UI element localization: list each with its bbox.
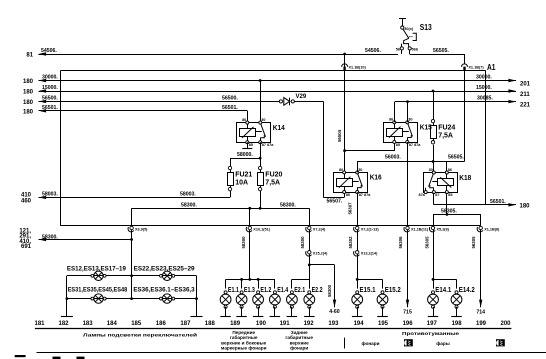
wire ES row 2 (67, 298, 197, 300)
svg-text:87 87a: 87 87a (359, 193, 372, 197)
svg-text:FU21: FU21 (235, 172, 252, 179)
svg-text:Задние: Задние (291, 330, 308, 335)
svg-text:15000.: 15000. (42, 85, 58, 91)
svg-text:86: 86 (448, 168, 452, 172)
wire 81 / S4506 to switch S13 (39, 54, 399, 56)
svg-text:56501.: 56501. (222, 105, 238, 111)
svg-text:E14.1: E14.1 (435, 287, 451, 294)
wire to FU20 (260, 158, 262, 166)
svg-text:X7,2(4): X7,2(4) (313, 227, 326, 231)
svg-text:X3,9(5): X3,9(5) (135, 227, 148, 231)
wire K16 pin87 drop (357, 192, 359, 226)
svg-text:E14.2: E14.2 (459, 287, 475, 294)
svg-text:58003.: 58003. (180, 191, 196, 197)
svg-text:X10,1(51): X10,1(51) (253, 227, 270, 231)
svg-text:56507.: 56507. (327, 198, 343, 204)
svg-text:180: 180 (23, 100, 34, 106)
fuse FU20 7.5A (258, 166, 261, 169)
svg-text:E1.3: E1.3 (244, 287, 255, 294)
svg-text:199: 199 (476, 321, 487, 327)
connector X1.1B(8) (479, 226, 482, 229)
wire X1.1B(10) vertical to K16 coil (344, 54, 346, 172)
svg-text:X1.1B(7): X1.1B(7) (468, 66, 484, 70)
ES lamp block rail right (196, 276, 198, 316)
diode V29 (279, 100, 282, 103)
lamp E1.2 (253, 294, 264, 305)
svg-text:X13,2(14): X13,2(14) (361, 252, 378, 256)
svg-text:E15.1: E15.1 (360, 287, 376, 294)
wire drop to ES lamp rail (131, 230, 133, 299)
svg-text:58300: 58300 (300, 236, 305, 249)
connector X13.2(14) (356, 251, 359, 254)
svg-text:30(x): 30(x) (404, 27, 414, 31)
svg-text:V29: V29 (296, 94, 307, 100)
svg-text:X7,2(1-13): X7,2(1-13) (361, 227, 380, 231)
wire K14 pin87 to S6000 node (260, 142, 262, 158)
lamp E15.1 (352, 294, 363, 305)
wire 58300 bus (132, 208, 310, 210)
svg-text:195: 195 (378, 321, 389, 327)
connector X7.2(1-13) (356, 226, 359, 229)
svg-text:15000.: 15000. (476, 85, 492, 91)
svg-text:180: 180 (23, 90, 34, 96)
svg-text:56b: 56b (412, 47, 419, 51)
wire ES row 1 (67, 275, 197, 277)
lamp E1.4 (270, 294, 281, 305)
svg-text:E15.2: E15.2 (385, 287, 401, 294)
svg-text:56305.: 56305. (441, 208, 457, 214)
svg-text:30: 30 (261, 118, 265, 122)
control unit A1 box (61, 70, 486, 72)
svg-text:56307: 56307 (348, 202, 353, 215)
wire drop to 714 exit (480, 230, 482, 308)
relay K16 (334, 173, 368, 193)
svg-text:85: 85 (448, 193, 452, 197)
wire 30085 (395, 101, 516, 103)
svg-text:56500.: 56500. (222, 95, 238, 101)
svg-text:Лампы подсветки переключателей: Лампы подсветки переключателей (83, 332, 197, 338)
wire S6505 from S13 to connector X1.1B(7) (410, 54, 465, 56)
svg-text:K16: K16 (370, 175, 382, 182)
wire E1 tap at 225.6 (225, 279, 227, 288)
svg-text:E1.1: E1.1 (228, 287, 239, 294)
wire S6000 to FU21 (230, 158, 260, 160)
svg-text:181: 181 (34, 321, 45, 327)
wire from V29 to node at x=323 (294, 101, 323, 103)
svg-text:180: 180 (23, 109, 34, 115)
svg-text:7,5A: 7,5A (438, 133, 453, 140)
connector X1.1B(10) on A1 top edge (342, 64, 348, 67)
svg-text:85: 85 (346, 193, 350, 197)
svg-text:197: 197 (427, 321, 438, 327)
lamp E1.1 (220, 294, 231, 305)
svg-text:54506.: 54506. (41, 48, 57, 54)
svg-text:56504: 56504 (337, 129, 342, 142)
svg-text:58302: 58302 (348, 236, 353, 249)
caption divider (344, 338, 346, 349)
connector X3.9(5) (130, 226, 133, 229)
svg-text:56: 56 (396, 47, 400, 51)
lamp E14.1 (428, 294, 439, 305)
lamps ES31,ES35,ES45,ES48 (94, 294, 103, 303)
bottom rule (35, 328, 512, 330)
svg-text:58300.: 58300. (280, 202, 296, 208)
svg-text:54506.: 54506. (365, 48, 381, 54)
svg-text:габаритные: габаритные (230, 334, 258, 340)
svg-text:201: 201 (520, 82, 531, 88)
svg-text:ES12,ES13,ES17–19: ES12,ES13,ES17–19 (67, 266, 126, 273)
wire V29 branch down to S6507 (323, 101, 325, 197)
wire to E2 lamps and 4-60 exit (309, 254, 311, 289)
wire K14 supply from 30000 (259, 79, 262, 82)
svg-text:81: 81 (26, 53, 33, 59)
relay K14 (237, 123, 271, 143)
wire K15 coil to 30085 (394, 102, 396, 123)
svg-text:85: 85 (396, 143, 400, 147)
svg-text:E2.1: E2.1 (294, 287, 305, 294)
wire E14 header (432, 278, 435, 281)
svg-text:X1,1B(8): X1,1B(8) (484, 227, 500, 231)
ES lamp block rail left (66, 276, 68, 316)
svg-text:4-60: 4-60 (329, 309, 339, 315)
connector X1.1B(7) on A1 top edge (462, 64, 468, 67)
svg-text:184: 184 (107, 321, 118, 327)
svg-text:211: 211 (520, 92, 530, 98)
wire E1 tap at 258.1 (258, 279, 260, 288)
wire S6500 (39, 101, 280, 103)
svg-text:86: 86 (389, 118, 393, 122)
svg-text:габаритные: габаритные (285, 334, 313, 340)
svg-text:56305: 56305 (424, 236, 429, 249)
wire FU24 to K18 pin30 (433, 145, 435, 173)
wire drop 58300 left end to connector X3.9(5) (131, 208, 133, 226)
wire drop to 715 exit (407, 230, 409, 308)
svg-text:58300.: 58300. (42, 234, 58, 240)
svg-text:185: 185 (131, 321, 142, 327)
svg-text:56501.: 56501. (490, 199, 506, 205)
lamp E15.2 (377, 294, 388, 305)
svg-text:714: 714 (476, 310, 485, 316)
svg-text:56505.: 56505. (433, 48, 449, 54)
svg-text:30085.: 30085. (477, 96, 493, 102)
svg-text:ES31,ES35,ES45,ES48: ES31,ES35,ES45,ES48 (68, 286, 128, 293)
wire drop to E14 lamps (433, 230, 435, 280)
svg-text:58300.: 58300. (181, 202, 197, 208)
wire E15 header (356, 278, 359, 281)
svg-text:10A: 10A (235, 179, 248, 186)
svg-text:58300: 58300 (327, 284, 332, 297)
caption front marker lamps (221, 330, 267, 351)
svg-text:190: 190 (256, 321, 267, 327)
wire K15 coil return to K16 (394, 142, 396, 151)
svg-text:193: 193 (328, 321, 339, 327)
fuse FU24 7.5A (431, 119, 434, 122)
lamp E1.3 (236, 294, 247, 305)
wire S6003 K16 pin30 to FU24 node (357, 161, 464, 163)
relay K15 (384, 123, 418, 143)
svg-text:56003.: 56003. (385, 155, 401, 161)
svg-text:Противотуманные: Противотуманные (402, 331, 460, 336)
svg-text:56306: 56306 (398, 236, 403, 249)
svg-text:A1: A1 (487, 63, 496, 72)
svg-text:56305: 56305 (471, 236, 476, 249)
wire S6305 from K18 pin85 (446, 193, 448, 215)
lamp E2.2 (304, 294, 315, 305)
lamps ES22,ES23,ES25-29 (162, 271, 171, 280)
svg-text:S13: S13 (420, 23, 432, 32)
svg-text:30000.: 30000. (42, 75, 58, 81)
lamps ES36,ES36.1-ES36.3 (162, 294, 171, 303)
svg-text:FU20: FU20 (265, 172, 282, 179)
svg-text:K14: K14 (273, 125, 285, 132)
svg-text:196: 196 (403, 321, 414, 327)
wire drop to connector X13.2(14) (357, 230, 359, 251)
svg-text:460: 460 (21, 199, 32, 205)
ground at K14 coil (247, 142, 249, 148)
node track numbers 181-200 (34, 321, 511, 327)
lamps ES12,ES13,ES17-19 (94, 271, 103, 280)
svg-text:30: 30 (408, 118, 412, 122)
lamp E14.2 (451, 294, 462, 305)
fuse FU21 10A (228, 166, 231, 169)
wire S6505 from connector X1.1B(7) to K18 coil (464, 71, 466, 162)
svg-text:189: 189 (230, 321, 241, 327)
svg-text:183: 183 (83, 321, 94, 327)
svg-text:X1,1B(11): X1,1B(11) (411, 227, 429, 231)
wire E1 tap at 241.6 (241, 279, 243, 288)
svg-text:30: 30 (429, 168, 433, 172)
svg-text:182: 182 (58, 321, 69, 327)
svg-text:691: 691 (21, 244, 32, 250)
connector X7.2(4) (309, 208, 311, 226)
wire K15 pin30 from 30085 (406, 100, 409, 103)
svg-text:фонари: фонари (290, 345, 308, 351)
svg-text:192: 192 (304, 321, 315, 327)
svg-text:верхние и боковые: верхние и боковые (221, 339, 266, 345)
svg-text:194: 194 (354, 321, 365, 327)
bottom frame line (37, 352, 546, 354)
lamp E2.1 (287, 294, 298, 305)
svg-text:200: 200 (500, 321, 511, 327)
svg-text:FU24: FU24 (438, 125, 455, 132)
svg-text:87 87a: 87 87a (409, 143, 422, 147)
wire S6003 from FU21 to left exit 410/460 (230, 191, 232, 198)
svg-text:186: 186 (156, 321, 167, 327)
svg-text:85: 85 (249, 143, 253, 147)
svg-text:маркерные фонари: маркерные фонари (221, 345, 267, 351)
wire to E15 lamps (357, 254, 359, 280)
wire drop to E1 lamps (249, 230, 251, 280)
svg-text:30: 30 (358, 168, 362, 172)
switch S13 (396, 19, 432, 55)
wire E1 header (226, 279, 275, 281)
svg-text:86: 86 (339, 168, 343, 172)
svg-text:56505.: 56505. (448, 155, 464, 161)
svg-text:198: 198 (452, 321, 463, 327)
svg-text:E1.4: E1.4 (277, 287, 288, 294)
svg-text:56501.: 56501. (42, 105, 58, 111)
svg-text:K18: K18 (459, 175, 471, 182)
svg-text:X15,2(4): X15,2(4) (313, 252, 328, 256)
wire 15000 bus (39, 91, 517, 93)
svg-text:87 87a: 87 87a (262, 143, 275, 147)
svg-text:Передние: Передние (232, 330, 255, 335)
wire K14 coil feed from S6501 (247, 111, 249, 123)
icon fog lamp symbol 2 (496, 339, 505, 346)
svg-text:E1.2: E1.2 (260, 287, 271, 294)
wire FU24 feed from 15000 (432, 90, 435, 93)
wire 30000 bus (39, 80, 517, 82)
wire K15 pin87 down to connector X1.1B(11) (407, 142, 409, 226)
wire E2 header (292, 279, 309, 281)
relay K18 (mirrored) (424, 173, 458, 193)
connector X15.2(4) (308, 251, 311, 254)
wire drop to connector X15.2(4) (309, 230, 311, 251)
svg-text:86: 86 (242, 118, 246, 122)
wire FU20 to 58300 bus (260, 191, 262, 209)
svg-text:E2.2: E2.2 (312, 287, 323, 294)
svg-text:715: 715 (403, 310, 412, 316)
svg-text:180: 180 (520, 203, 531, 209)
connector X1.1B(11) (406, 226, 409, 229)
svg-text:58000.: 58000. (237, 152, 253, 158)
svg-text:фонари: фонари (361, 340, 379, 346)
connector X10.1(51) (248, 207, 251, 210)
svg-text:56500.: 56500. (42, 95, 58, 101)
svg-text:221: 221 (520, 103, 531, 109)
wire S6501 K18 pin87 to right exit 180 (433, 193, 435, 205)
svg-text:30000.: 30000. (476, 75, 492, 81)
svg-text:187: 187 (180, 321, 191, 327)
svg-text:191: 191 (280, 321, 291, 327)
svg-text:фары: фары (436, 340, 450, 346)
wire E1 tap at 274.9 (274, 279, 276, 288)
svg-text:X1.1B(10): X1.1B(10) (349, 66, 367, 70)
svg-text:X5,2(6): X5,2(6) (437, 227, 450, 231)
svg-text:ES22,ES23,ES25–29: ES22,ES23,ES25–29 (134, 266, 195, 273)
svg-text:7,5A: 7,5A (265, 179, 280, 186)
icon fog lamp symbol 1 (404, 339, 413, 346)
svg-text:87: 87 (435, 193, 439, 197)
caption rear marker lamps (285, 330, 313, 351)
wire S6501 (39, 110, 248, 112)
svg-text:ES36,ES36.1–ES36,3: ES36,ES36.1–ES36,3 (133, 286, 194, 293)
svg-text:58003.: 58003. (42, 191, 58, 197)
svg-text:58300: 58300 (241, 236, 246, 249)
wire S8300 left exit 121/291/410/691 (39, 239, 132, 241)
svg-text:180: 180 (23, 79, 34, 85)
svg-text:188: 188 (205, 321, 216, 327)
connector X5.2(6) (431, 226, 434, 229)
svg-text:87a: 87a (418, 193, 425, 197)
